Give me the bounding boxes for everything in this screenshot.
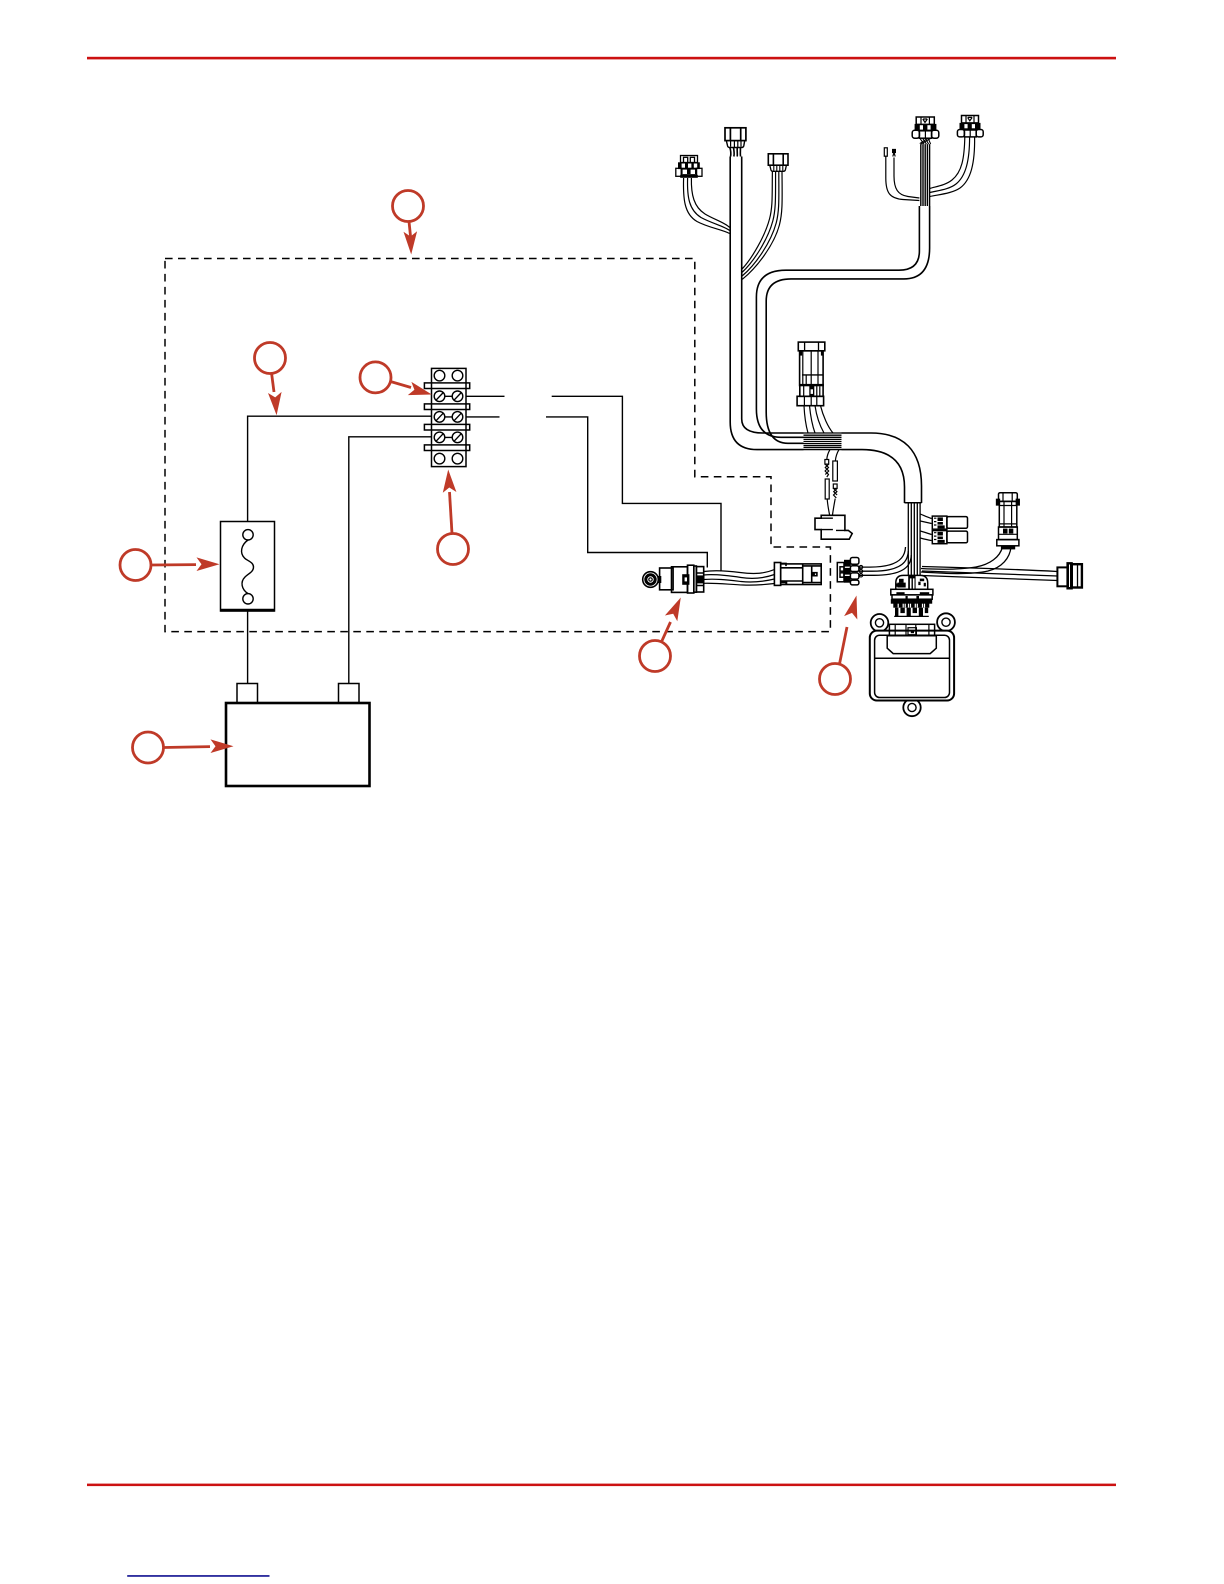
- inline fuse F2 (right strand): [832, 461, 837, 516]
- engine harness trunk C (lacing to ECM): [842, 433, 922, 503]
- ECM connector (multi-pin header): [891, 575, 933, 616]
- footer link underline: [127, 1575, 269, 1577]
- connector T1 (2-pin sensor plug, top far left): [676, 156, 702, 178]
- connector B (4-socket harness plug): [837, 558, 859, 585]
- callout 7 (harness connectors): [820, 596, 858, 695]
- wires R1 to trunk: [921, 547, 1003, 569]
- harness lead from row 1 (boat side stub): [466, 395, 505, 397]
- connector T2 (main relay plug, top): [725, 128, 746, 157]
- connector T4 (ignition coil plug, top right): [912, 117, 939, 138]
- page bottom rule: [87, 1484, 1116, 1487]
- terminal block screw row 1: [434, 391, 463, 402]
- callout 8 (battery): [133, 732, 234, 763]
- connector B wire seals: [859, 565, 862, 577]
- fuse element symbol: [242, 530, 254, 604]
- connector R1 (sensor plug, right): [997, 493, 1020, 550]
- connector SC2 (2-pin link, right of trunk): [932, 531, 967, 544]
- solenoid pigtail wires to connector A: [704, 570, 775, 586]
- terminal block screw row 3: [434, 432, 463, 443]
- terminal block screw row 2: [434, 412, 463, 423]
- ECM mounting ear right: [937, 613, 955, 631]
- callout 2 (battery cable): [255, 343, 286, 416]
- inline fuse leads from lacing: [827, 450, 839, 461]
- connector T5 (ignition coil plug, top far right): [957, 116, 983, 137]
- callout 4 (fuse holder): [120, 550, 220, 581]
- connector B wires to engine trunk: [859, 547, 911, 575]
- connector SC1 (2-pin link, right of trunk): [932, 516, 967, 529]
- callout 3 (terminal block upper): [360, 362, 432, 395]
- fuse holder box: [221, 522, 275, 612]
- callout 1 (harness boundary): [393, 191, 424, 255]
- terminal block bottom screws: [434, 453, 445, 464]
- dashed boundary (boat-side rigging area): [165, 259, 830, 632]
- terminal block: [424, 368, 469, 466]
- harness lacing (taped bundle): [804, 433, 842, 450]
- wires trunk to R2: [922, 567, 1057, 581]
- ECM module body: [870, 631, 954, 701]
- M1 pigtail wires down to lacing: [804, 406, 833, 433]
- wires trunk to SC1/SC2: [920, 514, 931, 541]
- ECM top socket: [889, 624, 934, 635]
- harness lead from row 2 (boat side stub): [466, 416, 500, 418]
- fuse holder block: [815, 515, 852, 539]
- callout 5 (terminal block lower): [438, 470, 469, 565]
- T1 pigtail wires to trunk: [683, 178, 729, 234]
- connector R2 (round bullet connector, far right): [1057, 563, 1082, 588]
- cable: fuse to terminal block row 2: [248, 416, 432, 521]
- engine lead row2: to solenoid terminal: [546, 417, 707, 568]
- T4 crimp hatch and striped trunk: [920, 138, 931, 206]
- trunk C wire band down to ECM connector: [908, 504, 920, 577]
- connector A (4-pin harness plug): [774, 563, 821, 586]
- battery positive cable to terminal block row 3: [349, 437, 432, 684]
- engine harness trunk A (from T2 down to lacing): [730, 157, 803, 450]
- starter solenoid eyelet terminal: [643, 572, 661, 588]
- battery: [226, 684, 370, 787]
- starter solenoid body: [660, 565, 704, 593]
- connector T3 (accessory plug, top): [768, 154, 788, 172]
- terminal block top screws: [434, 370, 445, 381]
- callout 6 (starter solenoid): [640, 598, 681, 672]
- T5 pigtail wires to trunk junction: [930, 137, 975, 197]
- battery cable: battery to fuse holder: [247, 611, 249, 684]
- ECM mounting ear bottom: [903, 699, 920, 716]
- engine harness trunk B (T4/T5 junction to lacing): [756, 206, 929, 443]
- connector M1 (trim relay plug, mid harness): [797, 342, 825, 406]
- ECM mounting ear left: [871, 614, 889, 632]
- loose wire terminals (top, unterminated leads): [884, 148, 919, 201]
- trunk C cap at taper: [905, 502, 922, 504]
- page top rule: [87, 57, 1116, 60]
- T3 pigtail wires to trunk: [742, 171, 782, 279]
- inline fuse F1 (left strand): [825, 460, 830, 516]
- engine lead row1: to solenoid harness: [552, 396, 721, 571]
